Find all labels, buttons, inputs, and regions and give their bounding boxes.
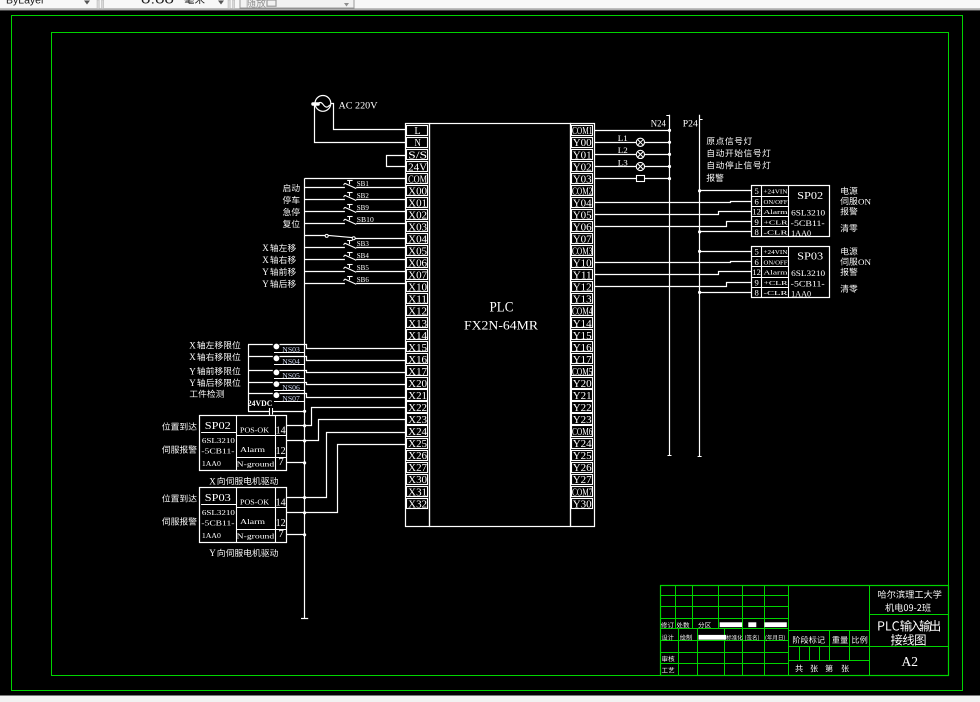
label 位置到达 (SP02) bbox=[162, 422, 197, 430]
svg-text:Y30: Y30 bbox=[573, 499, 592, 510]
label 位置到达 (SP03) bbox=[162, 494, 197, 502]
pushbutton SB4 bbox=[305, 251, 406, 260]
terminal Y06 (right) bbox=[572, 222, 593, 234]
terminal X22 (left) bbox=[407, 402, 428, 415]
label Y轴后移限位 bbox=[189, 378, 240, 388]
svg-text:COM5: COM5 bbox=[572, 367, 593, 378]
svg-text:6: 6 bbox=[754, 196, 759, 206]
svg-text:ON/OFF: ON/OFF bbox=[764, 259, 789, 266]
servo connector SP02 bbox=[751, 186, 829, 238]
label 伺服ON (SP02) bbox=[840, 196, 871, 206]
wire Y05 to SP02 pin12 bbox=[595, 212, 752, 215]
wire Y10 to SP03 pin6 bbox=[595, 262, 752, 263]
terminal Y20 (right) bbox=[572, 378, 593, 390]
svg-text:Y05: Y05 bbox=[573, 210, 592, 221]
svg-text:Y04: Y04 bbox=[573, 198, 592, 209]
svg-text:X06: X06 bbox=[408, 259, 427, 270]
net P24 bbox=[683, 115, 703, 457]
terminal X32 (left) bbox=[407, 499, 428, 511]
terminal X03 (left) bbox=[407, 222, 428, 234]
terminal X14 (left) bbox=[407, 330, 428, 342]
svg-text:+CLR: +CLR bbox=[764, 280, 789, 287]
svg-text:NS06: NS06 bbox=[282, 384, 300, 392]
svg-text:1AA0: 1AA0 bbox=[791, 229, 811, 238]
svg-text:Y: Y bbox=[262, 267, 269, 277]
svg-text:SP02: SP02 bbox=[205, 421, 231, 432]
svg-text:SB3: SB3 bbox=[357, 239, 369, 248]
label 清零 (SP03) bbox=[841, 285, 858, 293]
svg-text:Y10: Y10 bbox=[573, 259, 592, 270]
svg-text:5: 5 bbox=[754, 247, 758, 257]
svg-text:Y26: Y26 bbox=[573, 463, 592, 474]
svg-text:-5CB11-: -5CB11- bbox=[201, 446, 235, 455]
wire Y04 to SP02 pin6 bbox=[595, 202, 752, 203]
wire P24 to SP03 pin5 bbox=[698, 250, 751, 253]
jumper S/S to 24V bbox=[387, 156, 406, 167]
label 电源 (SP02) bbox=[841, 187, 857, 195]
svg-text:6: 6 bbox=[754, 257, 759, 267]
svg-text:-5CB11-: -5CB11- bbox=[791, 219, 825, 228]
terminal X12 (left) bbox=[407, 306, 428, 318]
svg-text:X: X bbox=[209, 476, 216, 486]
wire Y11 to SP03 pin12 bbox=[595, 272, 752, 275]
terminal X01 (left) bbox=[407, 198, 428, 210]
sensor NS07 bbox=[248, 392, 406, 403]
svg-text:Y: Y bbox=[262, 279, 269, 289]
svg-text:SP02: SP02 bbox=[797, 191, 823, 202]
terminal Y04 (right) bbox=[572, 198, 593, 210]
svg-text:X12: X12 bbox=[408, 307, 427, 318]
svg-text:COM2: COM2 bbox=[572, 186, 593, 197]
svg-text:Y16: Y16 bbox=[573, 343, 592, 354]
svg-text:+24VIN: +24VIN bbox=[764, 189, 789, 196]
svg-text:Y20: Y20 bbox=[573, 379, 592, 390]
terminal X15 (left) bbox=[407, 342, 428, 354]
svg-text:SP03: SP03 bbox=[205, 493, 231, 504]
svg-text:X02: X02 bbox=[408, 210, 427, 221]
servo drive SP02 (X axis) bbox=[200, 416, 287, 471]
terminal Y24 (right) bbox=[572, 439, 593, 451]
label 原点信号灯 bbox=[707, 137, 752, 145]
svg-text:X20: X20 bbox=[408, 379, 427, 390]
pushbutton SB3 bbox=[305, 239, 406, 248]
svg-text:ON: ON bbox=[858, 196, 872, 206]
AC source 220V bbox=[311, 96, 377, 112]
svg-text:6SL3210: 6SL3210 bbox=[202, 436, 235, 445]
svg-text:SB9: SB9 bbox=[357, 203, 369, 212]
wire SP03 N-ground to bus bbox=[286, 533, 306, 536]
servo drive SP03 (Y axis) bbox=[200, 488, 287, 543]
terminal Y14 (right) bbox=[572, 318, 593, 330]
svg-text:NS07: NS07 bbox=[282, 395, 300, 403]
svg-text:X03: X03 bbox=[408, 222, 427, 233]
svg-text:X05: X05 bbox=[408, 247, 427, 258]
svg-text:Y11: Y11 bbox=[573, 271, 592, 282]
label Y轴前移限位 bbox=[189, 366, 240, 376]
terminal Y13 (right) bbox=[572, 294, 593, 306]
svg-text:SB2: SB2 bbox=[357, 191, 369, 200]
wire COM1 to N24 bbox=[594, 129, 671, 132]
svg-text:7: 7 bbox=[278, 456, 284, 468]
terminal COM3 (right) bbox=[572, 246, 593, 258]
svg-text:X32: X32 bbox=[408, 499, 427, 510]
24V input bus bbox=[301, 178, 308, 618]
terminal L (left) bbox=[407, 126, 428, 138]
pushbutton SB2 bbox=[305, 191, 406, 200]
label 自动停止信号灯 bbox=[708, 161, 771, 169]
svg-text:NS03: NS03 bbox=[282, 346, 300, 354]
terminal Y02 (right) bbox=[572, 162, 593, 174]
svg-text:1AA0: 1AA0 bbox=[791, 289, 811, 298]
label X轴左移 bbox=[262, 243, 296, 253]
svg-text:Y21: Y21 bbox=[573, 391, 592, 402]
svg-text:12: 12 bbox=[752, 207, 761, 217]
terminal X27 (left) bbox=[407, 463, 428, 475]
sensor supply bus bbox=[248, 345, 250, 412]
wire SP03 Alarm to X25 bbox=[287, 445, 406, 513]
svg-text:1AA0: 1AA0 bbox=[202, 531, 221, 540]
sensor NS03 bbox=[248, 344, 406, 355]
svg-text:COM7: COM7 bbox=[572, 487, 593, 498]
terminal X13 (left) bbox=[407, 318, 428, 330]
svg-text:POS-OK: POS-OK bbox=[240, 426, 270, 435]
terminal X16 (left) bbox=[407, 354, 428, 366]
svg-text:5: 5 bbox=[754, 186, 758, 196]
label 报警 (SP03) bbox=[840, 268, 857, 276]
terminal Y26 (right) bbox=[572, 463, 593, 475]
svg-text:S/S: S/S bbox=[408, 150, 427, 161]
wire P24 to SP02 pin5 bbox=[698, 189, 751, 192]
svg-text:ON/OFF: ON/OFF bbox=[764, 199, 789, 206]
label 电源 (SP03) bbox=[841, 247, 857, 255]
svg-text:X21: X21 bbox=[408, 391, 427, 402]
lamp L3 bbox=[594, 158, 671, 170]
label 伺服报警 (SP03) bbox=[162, 517, 197, 525]
svg-text:COM3: COM3 bbox=[572, 247, 593, 258]
svg-text:9: 9 bbox=[754, 217, 758, 227]
wire SP03 POS-OK to X24 bbox=[287, 433, 406, 498]
terminal COM7 (right) bbox=[572, 487, 593, 499]
pushbutton SB6 bbox=[305, 275, 406, 284]
servo connector SP03 bbox=[751, 246, 829, 298]
knife switch (to X04) bbox=[305, 234, 406, 239]
svg-text:X16: X16 bbox=[408, 355, 427, 366]
PLC FX2N-64MR U1 bbox=[406, 124, 595, 527]
svg-text:8: 8 bbox=[754, 227, 758, 237]
svg-text:Alarm: Alarm bbox=[764, 270, 788, 277]
24VDC supply bbox=[248, 398, 306, 415]
svg-text:X17: X17 bbox=[408, 367, 427, 378]
svg-text:N-ground: N-ground bbox=[237, 533, 275, 540]
svg-text:Y13: Y13 bbox=[573, 295, 592, 306]
svg-text:Y25: Y25 bbox=[573, 451, 592, 462]
label 启动 bbox=[283, 184, 300, 192]
terminal Y16 (right) bbox=[572, 342, 593, 354]
svg-text:X26: X26 bbox=[408, 451, 427, 462]
terminal X06 (left) bbox=[407, 258, 428, 270]
svg-text:L2: L2 bbox=[618, 146, 628, 155]
svg-text:NS04: NS04 bbox=[282, 358, 300, 366]
svg-text:SB5: SB5 bbox=[357, 263, 369, 272]
svg-text:X31: X31 bbox=[408, 487, 427, 498]
svg-text:X11: X11 bbox=[408, 295, 427, 306]
terminal X17 (left) bbox=[407, 366, 428, 378]
svg-text:7: 7 bbox=[278, 528, 284, 540]
svg-text:X: X bbox=[189, 352, 196, 362]
svg-text:Y: Y bbox=[209, 548, 216, 558]
terminal N (left) bbox=[407, 138, 428, 150]
svg-text:Y00: Y00 bbox=[573, 138, 592, 149]
svg-text:X14: X14 bbox=[408, 331, 427, 342]
sensor NS05 bbox=[248, 370, 406, 381]
svg-text:N: N bbox=[414, 138, 421, 149]
svg-text:Y: Y bbox=[189, 378, 196, 388]
label 停车 bbox=[283, 196, 300, 204]
svg-text:X24: X24 bbox=[408, 427, 427, 438]
pushbutton SB1 bbox=[305, 179, 406, 188]
label X轴左移限位 bbox=[189, 340, 240, 350]
svg-text:X: X bbox=[189, 340, 196, 350]
svg-text:SB10: SB10 bbox=[357, 215, 374, 224]
terminal COM1 (right) bbox=[572, 126, 593, 138]
terminal X24 (left) bbox=[407, 426, 428, 439]
svg-text:Y24: Y24 bbox=[573, 439, 592, 450]
svg-text:Y17: Y17 bbox=[573, 355, 592, 366]
terminal Y22 (right) bbox=[572, 402, 593, 415]
terminal COM5 (right) bbox=[572, 366, 593, 378]
wire N bbox=[315, 106, 406, 143]
svg-text:Alarm: Alarm bbox=[240, 445, 265, 454]
svg-text:X00: X00 bbox=[408, 186, 427, 197]
svg-text:SB6: SB6 bbox=[357, 275, 369, 284]
svg-text:NS05: NS05 bbox=[282, 372, 300, 380]
terminal 24V (left) bbox=[407, 162, 428, 174]
terminal Y12 (right) bbox=[572, 282, 593, 294]
terminal X02 (left) bbox=[407, 210, 428, 222]
svg-text:Y27: Y27 bbox=[573, 475, 592, 486]
net N24 bbox=[651, 115, 672, 456]
svg-text:+CLR: +CLR bbox=[764, 219, 789, 226]
svg-text:ON: ON bbox=[858, 257, 872, 267]
svg-text:-CLR: -CLR bbox=[764, 290, 789, 297]
svg-text:SP03: SP03 bbox=[797, 252, 823, 263]
terminal COM4 (right) bbox=[572, 306, 593, 318]
terminal X30 (left) bbox=[407, 475, 428, 487]
wire P24 to SP03 pin8 bbox=[700, 292, 752, 294]
terminal COM6 (right) bbox=[572, 426, 593, 439]
pushbutton SB9 bbox=[305, 203, 406, 212]
svg-text:X01: X01 bbox=[408, 198, 427, 209]
svg-text:14: 14 bbox=[276, 425, 287, 437]
terminal Y11 (right) bbox=[572, 270, 593, 282]
wire SP02 Alarm to X23 bbox=[287, 420, 406, 441]
svg-text:9: 9 bbox=[754, 277, 758, 287]
svg-text:24VDC: 24VDC bbox=[248, 398, 272, 408]
label 报警 (SP02) bbox=[840, 207, 857, 215]
svg-text:0.00: 0.00 bbox=[141, 0, 174, 6]
svg-text:FX2N-64MR: FX2N-64MR bbox=[464, 318, 538, 333]
label 自动开始信号灯 bbox=[708, 149, 771, 157]
terminal Y21 (right) bbox=[572, 390, 593, 402]
wire P24 to SP02 pin8 bbox=[700, 231, 752, 233]
wire L bbox=[331, 104, 406, 130]
terminal X21 (left) bbox=[407, 390, 428, 402]
svg-text:Y22: Y22 bbox=[573, 403, 592, 414]
wire Y12 to SP03 pin9 bbox=[595, 283, 752, 287]
alarm buzzer (Y03) bbox=[594, 176, 671, 182]
svg-text:Y07: Y07 bbox=[573, 235, 592, 246]
svg-text:ByLayer: ByLayer bbox=[6, 0, 45, 6]
svg-text:6SL3210: 6SL3210 bbox=[202, 508, 235, 517]
terminal S/S (left) bbox=[407, 150, 428, 162]
svg-text:1AA0: 1AA0 bbox=[202, 459, 221, 468]
wire Y06 to SP02 pin9 bbox=[595, 222, 752, 227]
svg-text:AC 220V: AC 220V bbox=[339, 102, 378, 112]
terminal Y27 (right) bbox=[572, 475, 593, 487]
terminal Y15 (right) bbox=[572, 330, 593, 342]
label X轴右移限位 bbox=[189, 352, 240, 362]
svg-text:X23: X23 bbox=[408, 415, 427, 426]
label Y向伺服电机驱动 bbox=[209, 548, 278, 558]
svg-text:-5CB11-: -5CB11- bbox=[201, 518, 235, 527]
svg-text:8: 8 bbox=[754, 288, 758, 298]
svg-text:X10: X10 bbox=[408, 283, 427, 294]
title block texts bbox=[661, 590, 941, 673]
terminal COM2 (right) bbox=[572, 186, 593, 198]
label X轴右移 bbox=[262, 255, 296, 265]
svg-text:Y23: Y23 bbox=[573, 415, 592, 426]
svg-text:X15: X15 bbox=[408, 343, 427, 354]
label 伺服报警 (SP02) bbox=[162, 445, 197, 453]
svg-text:POS-OK: POS-OK bbox=[240, 498, 270, 507]
svg-text:X13: X13 bbox=[408, 319, 427, 330]
terminal Y07 (right) bbox=[572, 234, 593, 246]
svg-text:Y15: Y15 bbox=[573, 331, 592, 342]
terminal Y10 (right) bbox=[572, 258, 593, 270]
wire COM bbox=[305, 178, 406, 180]
svg-text:COM: COM bbox=[408, 174, 427, 185]
svg-text:A2: A2 bbox=[902, 654, 919, 669]
svg-text:COM4: COM4 bbox=[572, 307, 593, 318]
terminal COM (left) bbox=[407, 174, 428, 186]
title block bbox=[660, 586, 949, 676]
terminal Y01 (right) bbox=[572, 150, 593, 162]
terminal Y23 (right) bbox=[572, 414, 593, 427]
lamp L1 bbox=[594, 134, 671, 146]
svg-text:X22: X22 bbox=[408, 403, 427, 414]
svg-text:P24: P24 bbox=[683, 119, 698, 129]
pushbutton SB10 bbox=[305, 215, 406, 224]
svg-text:Y: Y bbox=[189, 366, 196, 376]
terminal X10 (left) bbox=[407, 282, 428, 294]
svg-text:L3: L3 bbox=[618, 158, 628, 167]
label Y轴后移 bbox=[262, 279, 296, 289]
pushbutton SB5 bbox=[305, 263, 406, 272]
svg-text:24V: 24V bbox=[408, 162, 428, 173]
svg-text:-CLR: -CLR bbox=[764, 230, 789, 237]
terminal Y05 (right) bbox=[572, 210, 593, 222]
terminal X23 (left) bbox=[407, 414, 428, 427]
svg-text:X04: X04 bbox=[408, 235, 427, 246]
terminal Y17 (right) bbox=[572, 354, 593, 366]
wire SP02 POS-OK to X22 bbox=[287, 408, 406, 426]
svg-text:SB1: SB1 bbox=[357, 179, 369, 188]
terminal X20 (left) bbox=[407, 378, 428, 390]
svg-text:PLC: PLC bbox=[490, 300, 514, 316]
label X向伺服电机驱动 bbox=[209, 476, 278, 486]
sensor NS04 bbox=[248, 355, 406, 366]
label Y轴前移 bbox=[262, 267, 296, 277]
terminal X05 (left) bbox=[407, 246, 428, 258]
svg-text:L1: L1 bbox=[618, 134, 628, 143]
terminal X31 (left) bbox=[407, 487, 428, 499]
terminal Y03 (right) bbox=[572, 174, 593, 186]
svg-text:L: L bbox=[414, 126, 420, 137]
svg-text:X: X bbox=[262, 255, 269, 265]
label 报警 bbox=[707, 174, 724, 182]
svg-text:Alarm: Alarm bbox=[764, 209, 788, 216]
svg-text:X30: X30 bbox=[408, 475, 427, 486]
svg-text:COM6: COM6 bbox=[572, 427, 593, 438]
terminal Y30 (right) bbox=[572, 499, 593, 511]
svg-text:Y14: Y14 bbox=[573, 319, 592, 330]
terminal Y25 (right) bbox=[572, 451, 593, 463]
svg-text:Y12: Y12 bbox=[573, 283, 592, 294]
svg-text:X27: X27 bbox=[408, 463, 427, 474]
label 急停 bbox=[283, 208, 300, 216]
terminal X11 (left) bbox=[407, 294, 428, 306]
terminal Y00 (right) bbox=[572, 138, 593, 150]
svg-text:Y06: Y06 bbox=[573, 222, 592, 233]
toolbar bbox=[0, 0, 980, 10]
label 工件检测 bbox=[190, 390, 224, 398]
svg-text:12: 12 bbox=[752, 267, 761, 277]
label 清零 (SP02) bbox=[841, 224, 858, 232]
svg-text:Y01: Y01 bbox=[573, 150, 592, 161]
wire SP02 N-ground to bus bbox=[286, 461, 306, 464]
svg-text:6SL3210: 6SL3210 bbox=[791, 269, 825, 278]
svg-text:N24: N24 bbox=[651, 119, 666, 129]
svg-text:Y03: Y03 bbox=[573, 174, 592, 185]
label 伺服ON (SP03) bbox=[840, 257, 871, 267]
label 复位 bbox=[283, 220, 300, 228]
sensor NS06 bbox=[248, 381, 406, 392]
terminal X07 (left) bbox=[407, 270, 428, 282]
svg-text:COM1: COM1 bbox=[572, 126, 593, 137]
svg-text:N-ground: N-ground bbox=[237, 461, 275, 468]
terminal X04 (left) bbox=[407, 234, 428, 246]
status bar bbox=[0, 696, 980, 702]
terminal X00 (left) bbox=[407, 186, 428, 198]
svg-text:Y02: Y02 bbox=[573, 162, 592, 173]
svg-text:Alarm: Alarm bbox=[240, 517, 265, 526]
svg-text:X: X bbox=[262, 243, 269, 253]
terminal X25 (left) bbox=[407, 439, 428, 451]
svg-text:14: 14 bbox=[276, 497, 287, 509]
svg-text:X07: X07 bbox=[408, 271, 427, 282]
svg-text:SB4: SB4 bbox=[357, 251, 369, 260]
svg-text:-5CB11-: -5CB11- bbox=[791, 279, 825, 288]
svg-text:6SL3210: 6SL3210 bbox=[791, 208, 825, 217]
terminal X26 (left) bbox=[407, 451, 428, 463]
svg-text:X25: X25 bbox=[408, 439, 427, 450]
lamp L2 bbox=[594, 146, 671, 158]
svg-text:+24VIN: +24VIN bbox=[764, 249, 789, 256]
